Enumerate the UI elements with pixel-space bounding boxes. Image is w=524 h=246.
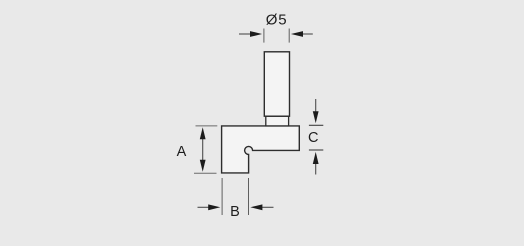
dim Ø5: left arrowhead xyxy=(250,31,262,37)
dim C: up arrowhead xyxy=(313,152,319,164)
dim Ø5: extension line right xyxy=(288,29,290,43)
dim A: up arrowhead xyxy=(200,127,206,139)
dim Ø5: right leader shaft xyxy=(302,33,313,35)
dim B: right arrowhead xyxy=(250,204,262,210)
dim C: bottom tick xyxy=(309,149,323,151)
dim B: left arrowhead xyxy=(208,204,220,210)
dim A: top tick xyxy=(196,125,218,127)
dim A: down arrowhead xyxy=(200,160,206,172)
dim A: bottom tick xyxy=(194,172,217,174)
dim B: extension line right xyxy=(248,178,250,215)
svg-text:B: B xyxy=(230,204,240,220)
svg-text:Ø5: Ø5 xyxy=(266,11,288,28)
dim C: top tick xyxy=(309,124,323,126)
neck (undercut between shank and body) xyxy=(266,116,289,126)
svg-text:A: A xyxy=(177,144,187,160)
dim Ø5: right arrowhead xyxy=(291,31,303,37)
shank cylinder xyxy=(264,52,289,116)
dim C: upper shaft xyxy=(315,99,317,116)
dim A: vertical shaft xyxy=(202,135,204,164)
dim B: extension line left xyxy=(221,178,223,215)
dim B: right leader shaft xyxy=(261,206,274,208)
dim B: left leader shaft xyxy=(198,206,210,208)
dim C: down arrowhead xyxy=(313,111,319,123)
svg-text:C: C xyxy=(308,130,318,146)
dim C: lower shaft xyxy=(315,160,317,175)
dim Ø5: extension line left xyxy=(263,29,265,43)
part body (stepped block profile) xyxy=(222,126,300,173)
dim Ø5: left leader shaft xyxy=(239,33,252,35)
